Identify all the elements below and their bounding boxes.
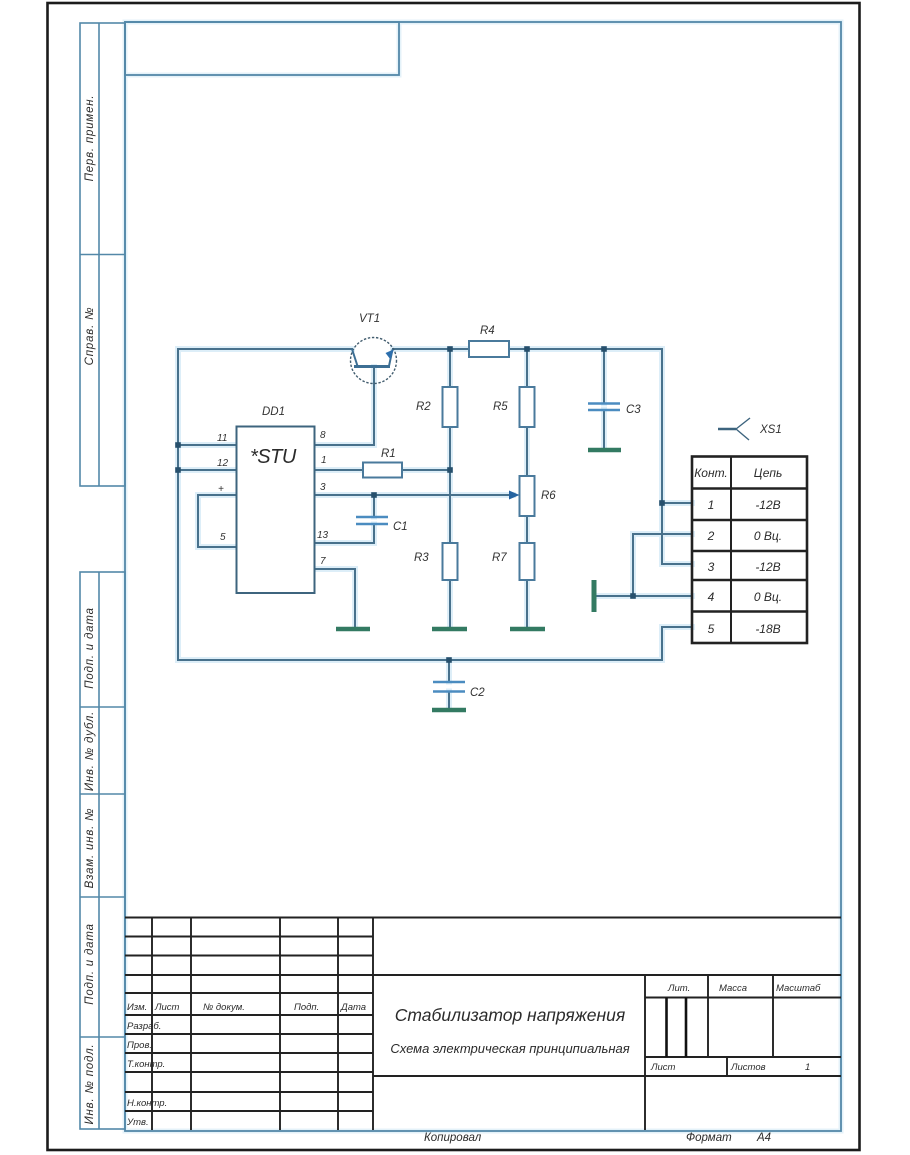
wire: C1 top lead: [373, 495, 375, 517]
node: C2 on bottom rail: [446, 657, 452, 663]
svg-text:0 Вц.: 0 Вц.: [754, 529, 782, 543]
wire: top rail right segment: [393, 348, 662, 350]
svg-text:VT1: VT1: [359, 313, 380, 325]
junction dots: [175, 346, 665, 663]
svg-text:-12В: -12В: [755, 560, 780, 574]
svg-text:Подп. и дата: Подп. и дата: [84, 923, 96, 1005]
svg-text:Изм.: Изм.: [127, 1002, 147, 1013]
svg-text:5: 5: [220, 532, 226, 543]
wire: left rail: [177, 349, 179, 660]
svg-text:5: 5: [708, 622, 715, 636]
wire: C2 top lead: [448, 660, 450, 682]
svg-text:R7: R7: [492, 552, 507, 564]
wire: XS1 contact 1: [662, 502, 692, 504]
svg-text:Масштаб: Масштаб: [776, 983, 821, 994]
drawing frame: [125, 22, 841, 1131]
node: R2 top: [447, 346, 453, 352]
svg-text:Масса: Масса: [719, 983, 747, 994]
node: pin11 on left rail: [175, 442, 181, 448]
node: contact2/ground: [630, 593, 636, 599]
wire: pin 8 to base: [315, 367, 375, 445]
svg-text:C1: C1: [393, 521, 408, 533]
wire: C1 bottom lead to pin 13: [315, 525, 375, 544]
wire: top rail left segment: [178, 348, 352, 350]
svg-text:DD1: DD1: [262, 406, 285, 418]
ground under C3: [588, 448, 621, 453]
svg-text:7: 7: [320, 556, 326, 567]
resistor R2: [443, 387, 458, 427]
wire: R5-R6 link: [526, 427, 528, 476]
svg-text:Лист: Лист: [154, 1002, 180, 1013]
svg-text:1: 1: [708, 498, 715, 512]
svg-text:1: 1: [321, 455, 327, 466]
wire: bottom rail: [178, 659, 662, 661]
ground bar at XS1 contact 4: [592, 580, 597, 612]
svg-text:-12В: -12В: [755, 498, 780, 512]
wire: right rail lower: [661, 627, 663, 660]
capacitor C3: [588, 404, 620, 411]
svg-text:4: 4: [708, 590, 715, 604]
node: C3 top: [601, 346, 607, 352]
resistor R7: [520, 543, 535, 580]
svg-text:Конт.: Конт.: [694, 466, 728, 480]
svg-text:13: 13: [317, 530, 329, 541]
svg-text:C3: C3: [626, 404, 641, 416]
svg-text:8: 8: [320, 430, 326, 441]
node: pin3/C1: [371, 492, 377, 498]
wire: R1 to R2/R3 node: [402, 469, 450, 471]
svg-text:А4: А4: [756, 1132, 771, 1144]
svg-text:R6: R6: [541, 490, 556, 502]
node: R5 top: [524, 346, 530, 352]
svg-text:0 Вц.: 0 Вц.: [754, 590, 782, 604]
wire: XS1 contact 2: [633, 534, 692, 596]
connector XS1 symbol: [718, 418, 750, 440]
wire: R6-R7 link: [526, 516, 528, 543]
node: pin12 on left rail: [175, 467, 181, 473]
svg-text:Инв. № подл.: Инв. № подл.: [84, 1044, 96, 1125]
transistor VT1: [351, 338, 397, 384]
wire: XS1 contact 4 from ground: [597, 595, 693, 597]
wire: XS1 contact 3: [662, 563, 692, 565]
R6 wiper arrow: [509, 491, 520, 500]
wire: R5 top lead: [526, 349, 528, 387]
svg-text:XS1: XS1: [759, 424, 782, 436]
wire: pin 1 to R1: [315, 469, 364, 471]
wire: R2 top lead: [449, 349, 451, 387]
svg-text:*STU: *STU: [250, 446, 297, 468]
wire: pin 3 to R6 wiper: [315, 494, 514, 496]
svg-text:Копировал: Копировал: [424, 1132, 482, 1144]
wire: R2-R3 link: [449, 427, 451, 543]
potentiometer R6: [520, 476, 535, 516]
svg-text:№ докум.: № докум.: [203, 1002, 245, 1013]
wire: R7 to ground: [526, 580, 528, 627]
wire: pin 12: [178, 469, 237, 471]
capacitor C1: [356, 517, 388, 524]
ground under C2: [432, 708, 466, 713]
svg-text:R2: R2: [416, 401, 431, 413]
svg-text:Стабилизатор напряжения: Стабилизатор напряжения: [395, 1005, 625, 1025]
node: R1/R2/R3: [447, 467, 453, 473]
svg-text:3: 3: [320, 482, 326, 493]
svg-text:Формат: Формат: [686, 1132, 732, 1144]
wire: XS1 contact 5: [662, 626, 692, 628]
connector XS1 table: [692, 457, 807, 644]
svg-text:2: 2: [707, 529, 715, 543]
svg-text:R1: R1: [381, 448, 396, 460]
svg-text:11: 11: [217, 433, 227, 444]
resistor R4: [469, 341, 509, 357]
svg-text:R4: R4: [480, 325, 495, 337]
wire: pin 7 to ground: [315, 569, 356, 627]
wire: R3 to ground: [449, 580, 451, 627]
left margin stamp boxes: [80, 23, 125, 1129]
svg-text:Листов: Листов: [730, 1062, 766, 1073]
wire: C3 top lead: [603, 349, 605, 404]
IC DD1: [237, 427, 315, 594]
wire: C2 bottom lead: [448, 692, 450, 709]
svg-text:Дата: Дата: [340, 1002, 366, 1013]
svg-text:Лист: Лист: [650, 1062, 676, 1073]
resistor R1: [363, 463, 402, 478]
wire: pin 11: [178, 444, 237, 446]
svg-text:Утв.: Утв.: [126, 1117, 149, 1128]
svg-text:Справ. №: Справ. №: [84, 307, 96, 366]
svg-text:Схема электрическая принципиал: Схема электрическая принципиальная: [390, 1041, 629, 1056]
svg-text:Подп.: Подп.: [294, 1002, 319, 1013]
svg-text:1: 1: [805, 1062, 810, 1073]
wire: C3 bottom lead: [603, 410, 605, 448]
svg-text:R3: R3: [414, 552, 429, 564]
svg-text:Инв. № дубл.: Инв. № дубл.: [84, 711, 96, 791]
ground under R3: [432, 627, 467, 632]
svg-text:Подп. и дата: Подп. и дата: [84, 607, 96, 689]
ground under R7: [510, 627, 545, 632]
capacitor C2: [433, 682, 465, 692]
node: contact1 on right rail: [659, 500, 665, 506]
resistor R5: [520, 387, 535, 427]
wire: pins + and 5 loop: [198, 495, 237, 547]
svg-text:3: 3: [708, 560, 715, 574]
svg-text:-18В: -18В: [755, 622, 780, 636]
svg-text:Перв. примен.: Перв. примен.: [84, 95, 96, 182]
svg-text:12: 12: [217, 458, 229, 469]
ground under pin 7: [336, 627, 370, 632]
wire: right rail upper: [661, 349, 663, 564]
svg-text:Взам. инв. №: Взам. инв. №: [84, 808, 96, 889]
svg-text:Н.контр.: Н.контр.: [127, 1098, 167, 1109]
svg-text:Лит.: Лит.: [667, 983, 690, 994]
svg-text:+: +: [218, 484, 224, 495]
resistor R3: [443, 543, 458, 580]
svg-text:Цепь: Цепь: [754, 466, 783, 480]
svg-text:R5: R5: [493, 401, 508, 413]
svg-text:Т.контр.: Т.контр.: [127, 1059, 165, 1070]
svg-text:Пров.: Пров.: [127, 1040, 152, 1051]
svg-text:C2: C2: [470, 687, 485, 699]
svg-text:Разраб.: Разраб.: [127, 1021, 161, 1032]
